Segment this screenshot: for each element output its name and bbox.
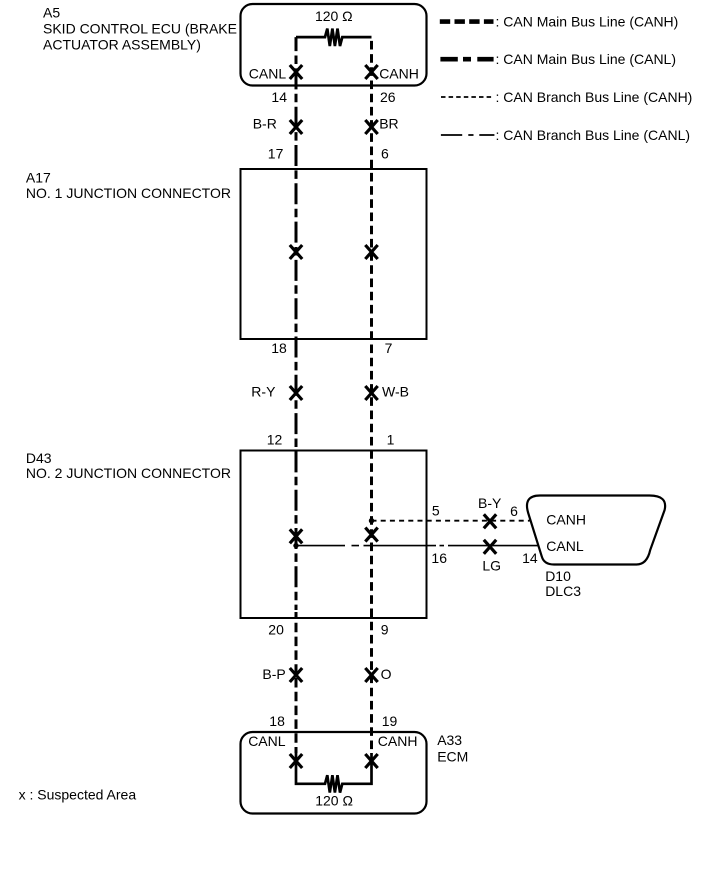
svg-text:ACTUATOR ASSEMBLY): ACTUATOR ASSEMBLY) (43, 36, 201, 52)
svg-text:A5: A5 (43, 5, 60, 21)
svg-text:: CAN Branch Bus Line (CANH): : CAN Branch Bus Line (CANH) (496, 89, 693, 105)
svg-text:16: 16 (431, 550, 447, 566)
svg-text:6: 6 (510, 503, 518, 519)
svg-text:B-R: B-R (253, 115, 277, 131)
svg-text:A33: A33 (437, 732, 462, 748)
svg-text:7: 7 (385, 340, 393, 356)
svg-text:9: 9 (381, 622, 389, 638)
svg-text:SKID CONTROL ECU (BRAKE: SKID CONTROL ECU (BRAKE (43, 21, 237, 37)
svg-text:DLC3: DLC3 (545, 583, 581, 599)
svg-text:CANH: CANH (379, 65, 419, 81)
svg-text:D43: D43 (26, 450, 52, 466)
svg-text:20: 20 (268, 622, 284, 638)
svg-text:D10: D10 (545, 568, 571, 584)
svg-text:B-Y: B-Y (478, 495, 502, 511)
svg-text:CANL: CANL (546, 538, 584, 554)
svg-text:: CAN Branch Bus Line (CANL): : CAN Branch Bus Line (CANL) (496, 127, 691, 143)
svg-text:: CAN Main Bus Line (CANL): : CAN Main Bus Line (CANL) (496, 51, 677, 67)
svg-text:19: 19 (382, 713, 398, 729)
svg-text:R-Y: R-Y (251, 384, 276, 400)
svg-text:BR: BR (379, 115, 398, 131)
svg-text:14: 14 (522, 550, 538, 566)
svg-text:O: O (381, 666, 392, 682)
svg-text:B-P: B-P (262, 666, 285, 682)
svg-text:120 Ω: 120 Ω (315, 8, 353, 24)
svg-text:1: 1 (387, 431, 395, 447)
svg-text:18: 18 (271, 340, 287, 356)
svg-text:W-B: W-B (382, 384, 409, 400)
svg-text:17: 17 (268, 145, 284, 161)
svg-text:NO. 2 JUNCTION CONNECTOR: NO. 2 JUNCTION CONNECTOR (26, 465, 231, 481)
svg-text:26: 26 (380, 89, 396, 105)
svg-text:CANH: CANH (378, 733, 418, 749)
svg-text:CANH: CANH (546, 512, 586, 528)
svg-text:: CAN Main Bus Line (CANH): : CAN Main Bus Line (CANH) (496, 14, 679, 30)
svg-text:x : Suspected Area: x : Suspected Area (19, 786, 137, 802)
svg-text:18: 18 (269, 713, 285, 729)
svg-text:120 Ω: 120 Ω (315, 792, 353, 808)
svg-text:5: 5 (432, 503, 440, 519)
svg-text:LG: LG (482, 558, 501, 574)
svg-text:12: 12 (267, 431, 283, 447)
svg-text:NO. 1 JUNCTION CONNECTOR: NO. 1 JUNCTION CONNECTOR (26, 185, 231, 201)
svg-text:6: 6 (381, 145, 389, 161)
svg-text:CANL: CANL (249, 65, 287, 81)
svg-text:CANL: CANL (248, 733, 286, 749)
svg-text:ECM: ECM (437, 748, 468, 764)
svg-text:14: 14 (271, 89, 287, 105)
svg-text:A17: A17 (26, 170, 51, 186)
